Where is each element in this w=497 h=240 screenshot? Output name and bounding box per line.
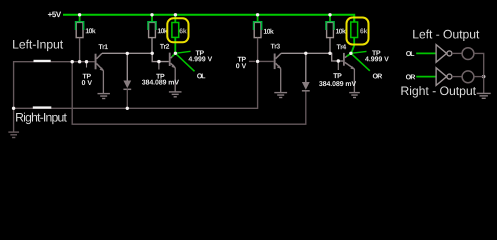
wire jack to ground riser: [474, 53, 484, 93]
wire left input net: [14, 62, 95, 132]
wire OR green stub: [416, 76, 435, 78]
Tr3 label: [271, 44, 280, 49]
transistor Tr2: [169, 53, 176, 92]
left input source bar: [34, 60, 51, 62]
transistor Tr3: [274, 53, 282, 92]
ground input: [8, 132, 19, 137]
resistor R1 10k: [76, 15, 96, 62]
wire +5V rail: [63, 15, 354, 22]
highlight box around R6: [347, 18, 369, 45]
wire Tr3 collector to Tr4 base: [281, 53, 343, 61]
OL net tag: [175, 53, 205, 78]
TP test point Tr4 base: [319, 61, 356, 86]
wire Tr4 collector green: [347, 53, 351, 56]
TP test point Tr3 base: [236, 57, 246, 69]
ground Tr1: [98, 94, 110, 99]
TP test point OR: [351, 51, 389, 62]
wire Tr1 collector to Tr2 base: [102, 53, 169, 61]
TP test point Tr1 base: [82, 62, 92, 85]
wire jack right: [474, 76, 484, 78]
Right - Output label: [401, 86, 476, 98]
resistor R2 10k: [148, 15, 168, 54]
TP test point OL: [175, 51, 212, 62]
wire U2 to jack: [452, 76, 462, 78]
wire cross-connect net: [72, 62, 306, 124]
transistor Tr1: [95, 53, 104, 93]
right input source bar: [33, 106, 52, 108]
resistor R4 10k: [254, 15, 274, 38]
wire Tr3 base: [258, 60, 274, 62]
OR tag at buffer: [406, 74, 415, 79]
output jack left: [462, 48, 474, 60]
+5V power label: [48, 12, 61, 18]
resistor R6 5k highlighted: [351, 15, 368, 54]
resistor R5 10k: [326, 15, 346, 54]
inverter U2: [436, 68, 452, 86]
Tr4 label: [337, 44, 347, 49]
ground Tr4: [349, 93, 360, 98]
ground Tr3: [274, 93, 287, 98]
OL tag at buffer: [406, 51, 414, 56]
output jack right: [462, 71, 474, 83]
wire ground rail right input net: [14, 38, 258, 109]
resistor R3 5k highlighted: [172, 15, 187, 54]
Right-Input label: [16, 113, 67, 125]
wire U1 to jack: [452, 52, 462, 54]
highlight box around R3: [167, 18, 188, 42]
inverter U1: [436, 45, 452, 63]
ground Tr2: [169, 92, 182, 97]
diode D2: [302, 53, 310, 91]
Left-Input label: [13, 40, 63, 52]
diode D1: [123, 53, 131, 108]
wire TP leader right input: [249, 60, 256, 62]
Left - Output label: [413, 30, 479, 42]
wire OL green stub: [416, 52, 435, 54]
node junction dots: [12, 13, 486, 110]
transistor Tr4: [343, 53, 355, 92]
Tr2 label: [160, 44, 169, 49]
OR net tag: [351, 53, 382, 78]
ground output: [477, 93, 491, 98]
wire Tr2 collector green: [172, 53, 175, 56]
Tr1 label: [99, 44, 108, 49]
TP test point Tr2 base: [142, 62, 179, 85]
